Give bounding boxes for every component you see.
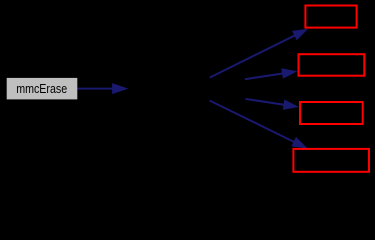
svg-text:mmcErase: mmcErase — [16, 81, 67, 96]
